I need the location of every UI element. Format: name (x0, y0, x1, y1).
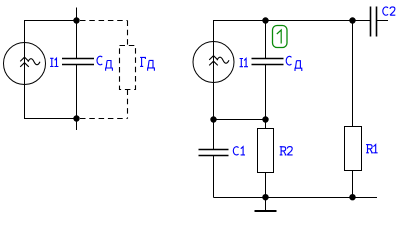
wire: bottom horizontal (214, 197, 378, 199)
label Cd (right) (286, 56, 302, 71)
junction dot: middle node at R2 top (262, 116, 268, 122)
node 1 green rounded box (273, 26, 288, 48)
capacitor Cd (left) plates (62, 59, 94, 65)
dashed wire: Gd upper lead (127, 21, 129, 46)
resistor Gd dashed box (120, 46, 136, 90)
junction dot: bottom-right node (349, 194, 355, 200)
ground stub (265, 198, 267, 211)
current source I1 (left) sine tilde (28, 59, 40, 65)
wire: right-source vertical upper (213, 20, 215, 42)
label Cd (left) (97, 56, 113, 71)
current source I1 (left) circle (4, 43, 46, 85)
current source I1 (right) circle (193, 42, 234, 83)
resistor R1 top lead (352, 21, 354, 127)
junction dot: top-right node (R1/C2) (349, 17, 355, 23)
capacitor Cd (left) top lead with stub above node (76, 8, 78, 59)
resistor R1 box (345, 127, 362, 171)
dashed wire: top run to Gd (80, 20, 128, 22)
label C2 (383, 7, 395, 15)
wire: left vertical upper (24, 20, 26, 43)
capacitor C2 left plate (370, 7, 372, 37)
wire: right-source vertical lower (213, 83, 215, 120)
capacitor C2 right plate (376, 7, 378, 37)
wire: left vertical lower (24, 85, 26, 119)
junction dot: middle-left node (210, 116, 216, 122)
label Gd (140, 57, 155, 70)
wire: middle horizontal (214, 119, 266, 121)
capacitor C2 right lead (377, 20, 389, 22)
wire: top-left horizontal (24, 20, 77, 22)
junction dot: bottom-left node (73, 115, 79, 121)
junction dot: ground node (262, 194, 268, 200)
capacitor C1 top lead (213, 120, 215, 150)
label C1 (233, 147, 245, 155)
junction dot: top-left node (73, 17, 79, 23)
capacitor Cd (left) bottom lead with stub below node (76, 65, 78, 131)
dashed wire: bottom run from Gd (80, 118, 128, 120)
label I1 (left) (50, 58, 58, 66)
capacitor C1 bottom lead (213, 156, 215, 198)
wire: bottom-left horizontal (24, 118, 77, 120)
junction dot: node 1 on top wire (262, 17, 268, 23)
resistor R1 bottom lead (352, 171, 354, 198)
wire: top horizontal (214, 20, 371, 22)
capacitor Cd (right) plates (252, 59, 284, 65)
resistor R2 bottom lead (265, 173, 267, 198)
dashed wire: Gd lower lead (127, 90, 129, 119)
label R1 (366, 145, 378, 153)
label R2 (280, 147, 293, 155)
current source I1 (right) shaft (213, 42, 215, 83)
resistor R2 box (258, 129, 274, 173)
capacitor Cd (right) top lead (265, 21, 267, 59)
current source I1 (right) sine tilde (217, 57, 229, 63)
capacitor C1 plates (199, 150, 229, 156)
current source I1 (left) arrow chevrons (20, 57, 29, 67)
current source I1 (left) shaft (24, 43, 26, 85)
capacitor Cd (right) bottom lead down to R2 (265, 65, 267, 130)
current source I1 (right) arrow chevrons (209, 56, 218, 66)
node 1 digit (277, 30, 281, 44)
label I1 (right) (240, 58, 248, 66)
ground bar (255, 210, 277, 212)
